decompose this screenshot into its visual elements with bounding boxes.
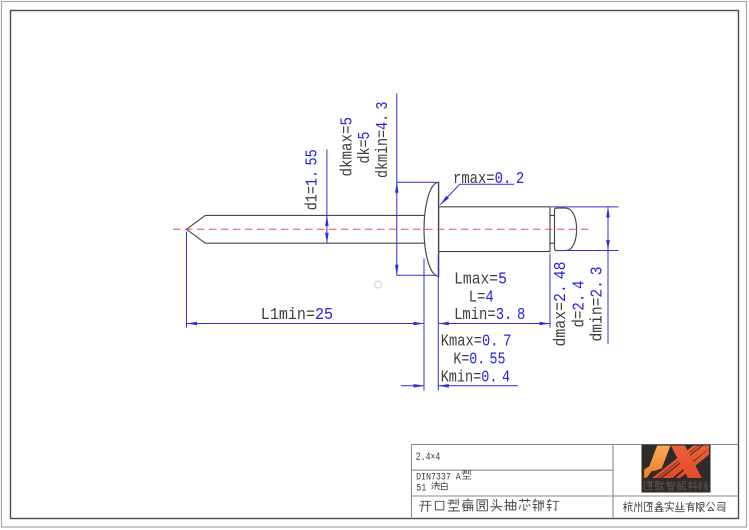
label dkmin=4.3 xyxy=(373,102,392,179)
label dkmax=5 xyxy=(338,117,357,177)
svg-text:Kmax=: Kmax= xyxy=(441,331,482,350)
title block divider xyxy=(612,445,614,519)
dimension line d1 xyxy=(326,150,328,244)
svg-text:5: 5 xyxy=(338,117,357,126)
svg-text:L1min=: L1min= xyxy=(261,305,315,324)
svg-text:2.: 2. xyxy=(569,294,588,311)
dimension line dk xyxy=(396,94,398,276)
logo letter X xyxy=(652,445,717,478)
extension line at pin tip xyxy=(186,232,188,328)
title block row line 1 xyxy=(412,469,614,471)
svg-text:2: 2 xyxy=(516,169,524,188)
dimension line L xyxy=(438,323,550,325)
svg-text:2.: 2. xyxy=(551,284,570,302)
svg-text:2.: 2. xyxy=(587,280,606,298)
rivet head right face xyxy=(438,182,440,276)
d extension top xyxy=(551,206,619,208)
mandrel pin bottom edge xyxy=(187,229,425,243)
svg-text:3: 3 xyxy=(373,102,392,110)
svg-text:0.: 0. xyxy=(481,367,497,386)
svg-text:dmin=: dmin= xyxy=(587,298,606,342)
svg-text:dmax=: dmax= xyxy=(551,302,570,347)
dimension line K right tail xyxy=(438,385,518,387)
svg-text:dkmax=: dkmax= xyxy=(338,126,357,177)
svg-text:55: 55 xyxy=(303,149,322,165)
product name hanzi xyxy=(420,501,432,511)
svg-text:0.: 0. xyxy=(469,349,485,368)
svg-text:3.: 3. xyxy=(496,305,513,324)
svg-text:Kmin=: Kmin= xyxy=(441,367,482,386)
svg-text:Lmax=: Lmax= xyxy=(454,269,498,288)
pin stub top xyxy=(550,214,555,216)
label dmax=2.48 xyxy=(551,262,570,347)
rivet head dome arc xyxy=(424,182,439,276)
svg-text:dkmin=: dkmin= xyxy=(373,130,392,178)
svg-text:3: 3 xyxy=(587,267,606,276)
rmax leader line xyxy=(440,184,514,204)
mandrel pin top edge xyxy=(187,215,425,229)
hanzi xing xyxy=(462,470,471,479)
label d=2.4 xyxy=(569,280,588,327)
title block top edge xyxy=(412,444,739,446)
svg-text:4: 4 xyxy=(485,287,493,306)
svg-text:5: 5 xyxy=(498,269,507,288)
centerline xyxy=(173,228,590,230)
svg-text:Lmin=: Lmin= xyxy=(454,305,496,324)
svg-text:0.: 0. xyxy=(482,331,499,350)
svg-text:55: 55 xyxy=(490,349,506,368)
svg-text:d1=: d1= xyxy=(303,186,322,210)
extension line at head apex xyxy=(423,259,425,391)
rivet body end face xyxy=(549,207,551,252)
svg-text:L=: L= xyxy=(469,287,486,306)
svg-text:dk=: dk= xyxy=(355,140,374,164)
extension line at body end xyxy=(549,254,551,328)
rivet body top edge xyxy=(439,206,550,208)
hanzi xi bai xyxy=(432,482,440,490)
rivet body bottom edge xyxy=(439,251,550,253)
dimension line L1min xyxy=(187,323,425,325)
svg-text:d=: d= xyxy=(569,311,588,328)
svg-text:4: 4 xyxy=(502,367,510,386)
label d1=1.55 xyxy=(303,149,322,210)
svg-text:2.4×4: 2.4×4 xyxy=(416,452,441,464)
svg-text:rmax=: rmax= xyxy=(453,169,495,188)
svg-text:48: 48 xyxy=(551,262,570,280)
logo hanzi xyxy=(644,482,652,490)
svg-text:8: 8 xyxy=(517,305,525,324)
svg-text:51: 51 xyxy=(416,482,426,494)
pin stub bottom xyxy=(550,242,555,244)
company name hanzi xyxy=(623,502,632,512)
svg-text:7: 7 xyxy=(503,331,511,350)
label dmin=2.3 xyxy=(587,267,606,342)
dk extension bottom xyxy=(397,274,437,276)
title block row line 2 xyxy=(412,495,739,497)
mandrel head cap xyxy=(555,208,577,251)
dimension line K left tail xyxy=(401,385,424,387)
title block left edge xyxy=(411,445,413,519)
svg-text:4.: 4. xyxy=(373,114,392,130)
d extension bottom xyxy=(562,250,619,252)
svg-text:5: 5 xyxy=(355,132,374,140)
logo letter J xyxy=(644,445,671,477)
dk extension top xyxy=(397,181,437,183)
extension line at head face xyxy=(437,254,439,391)
label dk=5 xyxy=(355,132,374,164)
svg-text:K=: K= xyxy=(453,349,469,368)
svg-text:4: 4 xyxy=(569,280,588,289)
logo box xyxy=(642,445,711,493)
watermark circle xyxy=(375,281,382,288)
svg-text:0.: 0. xyxy=(495,169,512,188)
arrowheads xyxy=(187,182,610,387)
dimension line d xyxy=(607,207,609,344)
svg-text:1.: 1. xyxy=(303,170,322,186)
svg-text:25: 25 xyxy=(315,305,333,324)
